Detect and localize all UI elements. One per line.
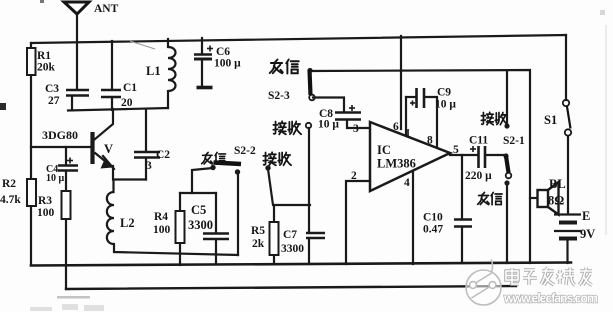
svg-text:4.7k: 4.7k	[0, 194, 21, 206]
svg-text:2: 2	[351, 170, 357, 182]
svg-text:BL: BL	[549, 177, 566, 191]
svg-text:LM386: LM386	[377, 157, 416, 171]
svg-text:27: 27	[48, 95, 60, 107]
svg-text:3DG80: 3DG80	[42, 128, 78, 142]
svg-text:100: 100	[153, 224, 171, 236]
svg-text:10 μ: 10 μ	[318, 119, 339, 131]
svg-text:4: 4	[404, 177, 410, 189]
svg-text:20k: 20k	[37, 62, 56, 74]
svg-text:3: 3	[353, 123, 359, 135]
svg-text:C9: C9	[437, 87, 451, 99]
svg-text:C5: C5	[191, 203, 206, 217]
svg-text:R1: R1	[37, 50, 51, 62]
svg-text:3300: 3300	[281, 243, 304, 255]
svg-text:S2-2: S2-2	[234, 145, 256, 157]
svg-text:100: 100	[37, 207, 55, 219]
svg-text:10 μ: 10 μ	[435, 99, 456, 111]
svg-text:ANT: ANT	[94, 3, 119, 15]
svg-text:9V: 9V	[580, 227, 595, 241]
svg-text:L1: L1	[146, 64, 161, 78]
svg-text:6: 6	[393, 121, 399, 133]
svg-text:10 μ: 10 μ	[46, 173, 65, 184]
svg-text:www.elecfans.com: www.elecfans.com	[503, 292, 598, 306]
svg-text:R4: R4	[154, 211, 168, 223]
svg-text:S2-1: S2-1	[503, 135, 525, 147]
svg-text:R2: R2	[2, 178, 16, 190]
svg-text:R3: R3	[38, 195, 52, 207]
svg-text:C11: C11	[469, 135, 488, 147]
svg-text:C7: C7	[283, 229, 297, 241]
svg-text:L2: L2	[120, 216, 135, 230]
svg-text:5: 5	[453, 144, 459, 156]
svg-text:8Ω: 8Ω	[548, 194, 564, 208]
svg-text:C2: C2	[156, 149, 170, 161]
svg-text:1: 1	[405, 128, 411, 140]
svg-text:R5: R5	[251, 225, 265, 237]
svg-text:V: V	[104, 142, 113, 156]
svg-text:IC: IC	[377, 143, 391, 157]
svg-text:E: E	[582, 209, 590, 223]
svg-text:C10: C10	[423, 212, 443, 224]
svg-text:0.47: 0.47	[423, 224, 443, 236]
svg-text:100 μ: 100 μ	[214, 58, 241, 70]
svg-text:220 μ: 220 μ	[465, 170, 492, 182]
svg-text:8: 8	[427, 135, 433, 147]
svg-text:20: 20	[121, 97, 133, 109]
svg-text:2k: 2k	[252, 238, 265, 250]
svg-text:S2-3: S2-3	[268, 90, 290, 102]
svg-text:C3: C3	[45, 83, 59, 95]
svg-text:S1: S1	[544, 113, 557, 127]
svg-text:3300: 3300	[188, 218, 213, 232]
svg-text:C1: C1	[123, 82, 137, 94]
svg-text:3: 3	[146, 160, 152, 172]
svg-text:C6: C6	[216, 46, 230, 58]
